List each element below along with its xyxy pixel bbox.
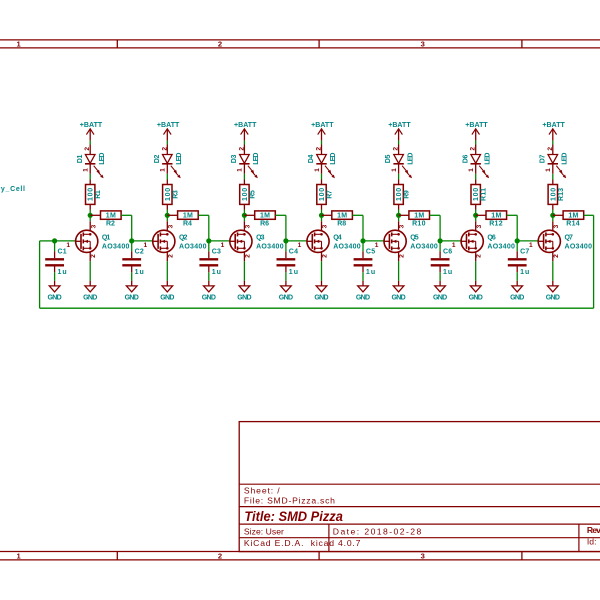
svg-text:LED: LED [253,153,260,165]
svg-text:KiCad E.D.A. kicad 4.0.7: KiCad E.D.A. kicad 4.0.7 [244,538,361,548]
svg-text:1M: 1M [260,212,270,219]
svg-text:100: 100 [88,188,95,201]
svg-text:1: 1 [221,242,225,249]
svg-text:1M: 1M [568,212,578,219]
svg-text:1: 1 [83,168,90,172]
svg-text:100: 100 [550,188,557,201]
svg-text:GND: GND [125,294,139,301]
svg-text:AO3400: AO3400 [102,244,130,251]
svg-text:C3: C3 [212,249,221,256]
svg-text:+BATT: +BATT [542,122,565,129]
svg-text:GND: GND [314,294,328,301]
svg-text:3: 3 [90,224,97,228]
svg-text:100: 100 [319,188,326,201]
svg-text:Q4: Q4 [333,234,341,241]
svg-text:R9: R9 [404,190,411,199]
svg-text:Q6: Q6 [487,234,495,241]
svg-text:R7: R7 [327,190,334,199]
svg-text:R12: R12 [489,220,502,227]
svg-text:2: 2 [90,254,97,258]
svg-text:GND: GND [510,294,524,301]
svg-text:2: 2 [316,147,323,151]
svg-text:3: 3 [167,224,174,228]
svg-text:Sheet: /: Sheet: / [244,486,280,496]
svg-text:R13: R13 [558,188,565,201]
svg-text:Date: 2018-02-28: Date: 2018-02-28 [333,526,422,536]
svg-text:+BATT: +BATT [465,122,488,129]
svg-text:100: 100 [242,188,249,201]
svg-text:2: 2 [553,254,560,258]
svg-text:100: 100 [396,188,403,201]
svg-text:AO3400: AO3400 [256,244,284,251]
svg-text:File: SMD-Pizza.sch: File: SMD-Pizza.sch [244,496,335,506]
svg-text:C6: C6 [443,249,452,256]
svg-text:D3: D3 [231,155,238,164]
svg-text:AO3400: AO3400 [410,244,438,251]
svg-text:3: 3 [421,552,425,561]
svg-text:D7: D7 [539,155,546,164]
svg-text:1M: 1M [414,212,424,219]
svg-text:GND: GND [433,294,447,301]
svg-text:2: 2 [470,147,477,151]
svg-text:1u: 1u [135,269,144,276]
svg-text:Title: SMD Pizza: Title: SMD Pizza [244,509,343,524]
svg-text:2: 2 [547,147,554,151]
svg-text:R6: R6 [260,220,269,227]
svg-text:GND: GND [47,294,61,301]
svg-text:R11: R11 [481,188,488,201]
svg-text:2: 2 [238,147,245,151]
svg-text:GND: GND [392,294,406,301]
svg-text:GND: GND [469,294,483,301]
svg-text:C4: C4 [289,249,298,256]
svg-text:GND: GND [160,294,174,301]
svg-text:AO3400: AO3400 [333,244,361,251]
svg-text:3: 3 [421,40,425,49]
svg-text:LED: LED [176,153,183,165]
svg-text:Q1: Q1 [102,234,110,241]
svg-text:R10: R10 [412,220,425,227]
svg-text:2: 2 [167,254,174,258]
svg-text:R8: R8 [337,220,346,227]
svg-text:GND: GND [356,294,370,301]
svg-text:1u: 1u [443,269,452,276]
svg-text:1: 1 [66,242,70,249]
svg-text:+BATT: +BATT [311,122,334,129]
svg-text:GND: GND [237,294,251,301]
svg-text:C2: C2 [135,249,144,256]
svg-text:R3: R3 [172,190,179,199]
svg-text:1u: 1u [212,269,221,276]
svg-text:Rev: Rev [587,525,600,535]
svg-text:C1: C1 [58,249,67,256]
svg-text:3: 3 [553,224,560,228]
svg-text:+BATT: +BATT [80,122,103,129]
svg-text:1M: 1M [337,212,347,219]
svg-text:100: 100 [473,188,480,201]
svg-text:2: 2 [161,147,168,151]
svg-text:1u: 1u [520,269,529,276]
svg-text:+BATT: +BATT [388,122,411,129]
svg-text:GND: GND [83,294,97,301]
svg-text:1: 1 [545,168,552,172]
svg-text:1u: 1u [366,269,375,276]
svg-text:Q2: Q2 [179,234,187,241]
svg-text:1: 1 [529,242,533,249]
svg-text:1: 1 [314,168,321,172]
svg-text:GND: GND [546,294,560,301]
svg-text:D6: D6 [462,155,469,164]
svg-text:C5: C5 [366,249,375,256]
svg-text:GND: GND [279,294,293,301]
svg-text:1: 1 [375,242,379,249]
svg-text:ry_Cell: ry_Cell [0,186,25,193]
svg-text:LED: LED [330,153,337,165]
svg-text:1M: 1M [183,212,193,219]
svg-text:Q5: Q5 [410,234,418,241]
svg-text:D2: D2 [154,155,161,164]
svg-text:R4: R4 [183,220,192,227]
svg-text:1: 1 [468,168,475,172]
svg-text:2: 2 [393,147,400,151]
svg-text:2: 2 [322,254,329,258]
svg-text:Id:: Id: [587,537,599,547]
svg-text:LED: LED [562,153,569,165]
svg-text:2: 2 [399,254,406,258]
svg-text:R1: R1 [95,190,102,199]
svg-text:AO3400: AO3400 [487,244,515,251]
svg-text:D1: D1 [77,155,84,164]
svg-text:2: 2 [476,254,483,258]
svg-text:1: 1 [143,242,147,249]
svg-text:LED: LED [99,153,106,165]
svg-text:2: 2 [218,552,222,561]
svg-text:1M: 1M [491,212,501,219]
svg-text:R14: R14 [566,220,579,227]
svg-text:1: 1 [391,168,398,172]
svg-text:R2: R2 [106,220,115,227]
svg-text:1M: 1M [106,212,116,219]
svg-text:3: 3 [245,224,252,228]
svg-text:2: 2 [218,40,222,49]
svg-text:C7: C7 [520,249,529,256]
svg-text:3: 3 [399,224,406,228]
svg-text:D5: D5 [385,155,392,164]
svg-text:D4: D4 [308,155,315,164]
svg-text:1: 1 [452,242,456,249]
svg-text:+BATT: +BATT [157,122,180,129]
svg-text:LED: LED [407,153,414,165]
svg-text:2: 2 [84,147,91,151]
svg-text:AO3400: AO3400 [179,244,207,251]
svg-text:GND: GND [202,294,216,301]
svg-text:2: 2 [244,254,251,258]
svg-text:Q7: Q7 [565,234,573,241]
svg-text:AO3400: AO3400 [565,244,593,251]
svg-text:1: 1 [237,168,244,172]
svg-text:R5: R5 [249,190,256,199]
svg-text:3: 3 [322,224,329,228]
svg-text:1u: 1u [58,269,67,276]
svg-text:1: 1 [298,242,302,249]
svg-text:3: 3 [476,224,483,228]
svg-text:Q3: Q3 [256,234,264,241]
svg-text:LED: LED [484,153,491,165]
svg-text:1u: 1u [289,269,298,276]
svg-text:1: 1 [160,168,167,172]
svg-text:Size: User: Size: User [244,526,284,536]
svg-text:+BATT: +BATT [234,122,257,129]
svg-text:100: 100 [165,188,172,201]
